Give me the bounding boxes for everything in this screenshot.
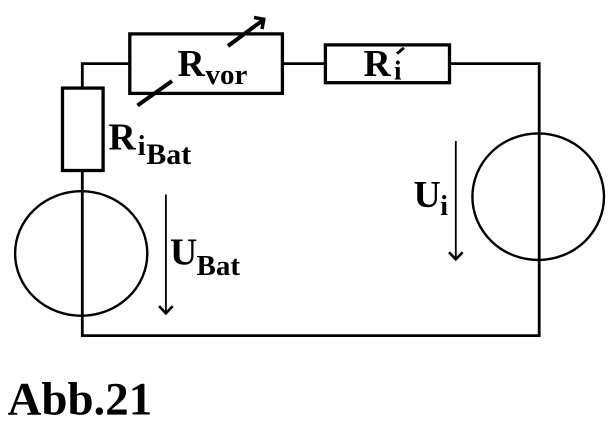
svg-text:R: R: [364, 43, 392, 85]
resistor R_i' box: [325, 45, 449, 83]
wire from R_i' right, down right side, along bottom, up left side to R_iBat bottom: [82, 64, 539, 336]
svg-text:i: i: [440, 191, 448, 222]
svg-text:vor: vor: [206, 59, 248, 91]
svg-text:i: i: [138, 131, 146, 162]
arrow U_i shaft: [455, 141, 457, 259]
svg-text:R: R: [178, 43, 206, 85]
svg-text:Bat: Bat: [146, 138, 191, 171]
svg-text:U: U: [170, 232, 197, 274]
svg-text:Abb.21: Abb.21: [8, 373, 153, 424]
resistor R_iBat box: [63, 88, 104, 170]
svg-text:U: U: [414, 174, 441, 216]
variable-resistor arrowhead: [254, 18, 264, 30]
variable-resistor arrow lower segment: [138, 81, 173, 106]
wire between R_vor and R_i': [282, 62, 326, 65]
prime mark of R_i': [397, 48, 404, 54]
arrow U_Bat shaft: [165, 195, 167, 314]
wire top-left L from R_iBat top to R_vor left: [82, 64, 129, 89]
source circle left (battery): [15, 191, 147, 316]
svg-text:i: i: [394, 56, 402, 86]
source circle right: [472, 133, 604, 260]
svg-text:R: R: [109, 116, 137, 158]
variable-resistor arrow upper segment: [228, 21, 263, 47]
svg-text:Bat: Bat: [197, 250, 241, 282]
arrow U_i head: [449, 252, 463, 259]
resistor R_vor box: [130, 34, 283, 94]
arrow U_Bat head: [159, 306, 173, 313]
